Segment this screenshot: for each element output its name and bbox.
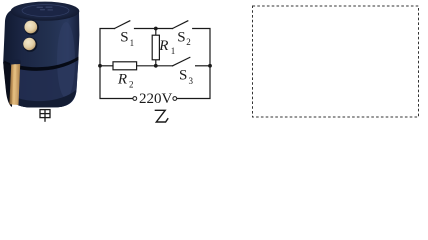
R1 bottom lead (155, 60, 157, 66)
handle mount cap (10, 60, 21, 68)
knob 1 shadow (24, 20, 39, 35)
label S3 (179, 67, 194, 86)
knob 2 (23, 38, 35, 50)
label jia (甲) (40, 110, 50, 122)
svg-text:3: 3 (189, 76, 194, 86)
air fryer right sheen (57, 22, 75, 98)
right rail (177, 29, 210, 99)
handle (9, 64, 20, 105)
svg-text:R: R (158, 38, 168, 54)
junction node top (R1/top wire) (154, 27, 158, 31)
svg-text:R: R (117, 71, 127, 87)
body seam band (4, 57, 79, 71)
middle wire right (196, 65, 210, 67)
knob 1 (24, 21, 37, 34)
label R1 (158, 38, 175, 56)
handle highlight (12, 64, 16, 105)
svg-text:S: S (120, 29, 128, 45)
svg-text:2: 2 (129, 79, 134, 89)
knob 2 shadow (23, 37, 37, 51)
air fryer top face (11, 2, 80, 21)
svg-text:220V: 220V (139, 91, 173, 107)
junction node middle (R1/R2/S3) (154, 64, 158, 68)
junction node left rail (98, 64, 102, 68)
svg-text:1: 1 (171, 46, 176, 56)
supply terminal right (173, 97, 177, 101)
svg-text:1: 1 (130, 38, 135, 48)
junction node right rail (208, 64, 212, 68)
air fryer bottom shadow (7, 90, 77, 108)
supply terminal left (133, 97, 137, 101)
switch S3 blade (173, 57, 190, 65)
resistor R1 box (152, 35, 159, 60)
air fryer lower drawer shading (4, 59, 79, 108)
middle wire left (100, 65, 113, 67)
panel markings (37, 7, 54, 11)
dashed answer box (253, 6, 419, 117)
middle wire center (137, 65, 173, 67)
switch S2 blade (173, 21, 188, 29)
switch S1 blade (115, 21, 130, 29)
label yi (乙) (155, 110, 169, 122)
air fryer body (3, 4, 79, 108)
svg-text:S: S (177, 29, 185, 45)
label R2 (117, 71, 134, 89)
R1 top lead (155, 29, 157, 36)
label S1 (120, 29, 134, 48)
control panel ring on top (22, 5, 69, 17)
top wire segment S1-S2 (135, 28, 173, 30)
left rail (100, 29, 133, 99)
circuit wires (100, 21, 210, 99)
svg-text:S: S (179, 67, 187, 83)
drawer left dark face (3, 62, 12, 107)
resistor R2 box (113, 62, 137, 70)
label S2 (177, 29, 190, 47)
svg-text:2: 2 (186, 37, 191, 47)
